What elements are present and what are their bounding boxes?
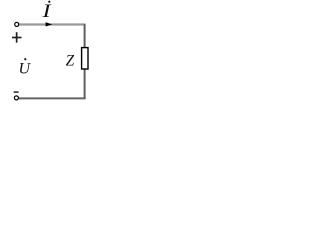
svg-text:I: I — [41, 1, 51, 22]
svg-text:Z: Z — [66, 53, 75, 70]
svg-text:U: U — [19, 60, 32, 77]
